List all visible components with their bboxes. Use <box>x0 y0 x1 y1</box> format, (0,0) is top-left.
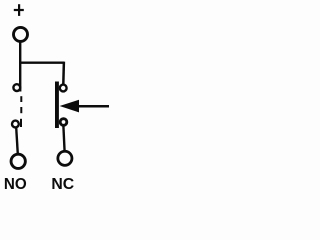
actuator arrow shaft <box>78 105 109 108</box>
NC lower fixed contact <box>60 119 67 126</box>
wire from + terminal down through junction to NO contact <box>19 42 21 92</box>
NC upper fixed contact <box>60 85 67 92</box>
terminal NC <box>58 151 72 165</box>
movable blade dashed segment 2 <box>20 107 22 113</box>
wire horizontal branch from junction to NC branch <box>19 62 64 64</box>
NO fixed contact (upper) <box>13 84 20 91</box>
terminal + (common) <box>14 27 28 41</box>
svg-text:NO: NO <box>4 176 27 193</box>
wire from NO lower contact to NO terminal <box>16 128 18 154</box>
svg-text:NC: NC <box>51 176 74 193</box>
actuator arrowhead <box>60 100 79 113</box>
terminal NO <box>11 154 25 168</box>
NO fixed contact (lower) <box>12 121 19 128</box>
movable blade dashed segment 3 <box>20 119 22 127</box>
movable blade dashed segment 1 (NO side open) <box>20 96 22 102</box>
wire vertical down to NC upper contact <box>62 62 65 85</box>
movable contact bar (NC side, closed) <box>55 82 59 129</box>
plus polarity marker <box>14 4 24 16</box>
wire from NC lower contact to NC terminal <box>63 126 64 152</box>
